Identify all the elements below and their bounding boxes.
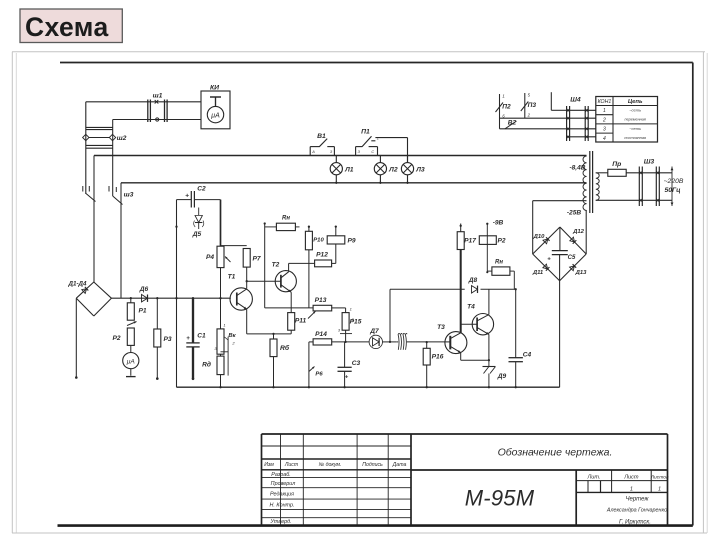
- svg-text:Р12: Р12: [316, 252, 328, 259]
- svg-text:+: +: [345, 375, 349, 381]
- svg-text:Александра Гончаренко: Александра Гончаренко: [606, 508, 667, 514]
- svg-text:Т1: Т1: [228, 274, 236, 281]
- svg-text:Р13: Р13: [315, 297, 327, 304]
- svg-text:1: 1: [658, 486, 661, 492]
- svg-text:Р6: Р6: [315, 372, 323, 378]
- svg-text:С2: С2: [197, 186, 206, 193]
- svg-text:Дата: Дата: [392, 462, 407, 468]
- svg-text:А: А: [311, 150, 315, 154]
- svg-text:Т4: Т4: [467, 304, 475, 311]
- svg-text:В2: В2: [508, 120, 517, 127]
- svg-text:Схема: Схема: [25, 12, 109, 42]
- svg-text:Р9: Р9: [347, 238, 355, 245]
- svg-text:ш2: ш2: [117, 135, 127, 142]
- svg-text:+: +: [185, 193, 189, 200]
- svg-text:1: 1: [223, 323, 225, 328]
- svg-text:3: 3: [603, 127, 606, 133]
- svg-text:-25В: -25В: [567, 210, 582, 217]
- svg-text:П1: П1: [361, 129, 370, 136]
- svg-text:ш1: ш1: [153, 92, 163, 99]
- svg-text:Г. Иркутск.: Г. Иркутск.: [619, 520, 651, 526]
- svg-text:Изм: Изм: [264, 462, 274, 468]
- svg-text:Р4: Р4: [206, 254, 214, 261]
- svg-text:4: 4: [603, 136, 606, 142]
- svg-text:С: С: [371, 150, 374, 154]
- svg-text:Редакция: Редакция: [270, 491, 294, 497]
- svg-text:Пр: Пр: [612, 161, 621, 168]
- svg-text:П2: П2: [502, 104, 511, 111]
- svg-text:~220В: ~220В: [664, 178, 684, 185]
- svg-text:+: +: [186, 336, 190, 342]
- svg-text:Д5: Д5: [192, 231, 202, 238]
- svg-text:-9В: -9В: [493, 220, 504, 227]
- svg-text:Утверд.: Утверд.: [269, 519, 291, 525]
- svg-text:Л1: Л1: [344, 166, 354, 173]
- svg-text:μА: μА: [126, 358, 136, 365]
- svg-text:Лист: Лист: [284, 462, 299, 468]
- svg-text:1: 1: [377, 136, 379, 140]
- svg-text:Р10: Р10: [313, 238, 324, 244]
- svg-text:Проверил: Проверил: [271, 481, 296, 487]
- svg-text:КОН1: КОН1: [598, 99, 612, 105]
- svg-text:~сеть: ~сеть: [629, 126, 641, 131]
- svg-text:~сеть: ~сеть: [629, 108, 641, 113]
- svg-text:ш3: ш3: [124, 192, 134, 199]
- svg-text:1: 1: [350, 307, 352, 312]
- svg-text:Вк: Вк: [228, 333, 236, 339]
- svg-text:Т3: Т3: [437, 324, 445, 331]
- svg-text:Р7: Р7: [252, 256, 260, 263]
- svg-text:1: 1: [603, 108, 606, 114]
- svg-text:Rд: Rд: [202, 361, 211, 369]
- svg-text:Д10: Д10: [533, 234, 546, 240]
- svg-text:Р17: Р17: [464, 238, 476, 245]
- svg-text:Р3: Р3: [163, 336, 171, 343]
- svg-text:Д11: Д11: [532, 270, 543, 276]
- svg-text:Чертеж: Чертеж: [625, 497, 649, 503]
- svg-text:М-95М: М-95М: [465, 486, 535, 511]
- svg-text:С5: С5: [568, 255, 576, 261]
- svg-text:Д1-Д4: Д1-Д4: [68, 281, 87, 288]
- svg-text:С3: С3: [352, 360, 361, 367]
- svg-text:Л3: Л3: [415, 166, 425, 173]
- svg-text:Д12: Д12: [572, 229, 585, 235]
- svg-text:Лит.: Лит.: [586, 475, 600, 481]
- svg-text:Цепь: Цепь: [628, 99, 643, 105]
- svg-text:Листов: Листов: [650, 475, 669, 481]
- svg-text:2: 2: [602, 117, 606, 123]
- svg-text:Rн: Rн: [282, 216, 290, 222]
- svg-text:Ш3: Ш3: [644, 159, 655, 166]
- svg-text:П3: П3: [528, 102, 537, 109]
- svg-text:Обозначение чертежа.: Обозначение чертежа.: [498, 447, 613, 459]
- svg-text:Rн: Rн: [495, 260, 503, 266]
- svg-text:Rб: Rб: [280, 344, 290, 352]
- svg-text:С4: С4: [523, 352, 532, 359]
- svg-text:Р11: Р11: [295, 318, 307, 325]
- svg-text:Д9: Д9: [497, 373, 507, 380]
- svg-text:№ докум.: № докум.: [319, 462, 342, 468]
- svg-text:μА: μА: [210, 112, 220, 119]
- svg-text:Лист: Лист: [623, 475, 639, 481]
- svg-text:Т2: Т2: [272, 262, 280, 269]
- svg-text:Р14: Р14: [315, 331, 327, 338]
- svg-text:КИ: КИ: [210, 85, 219, 92]
- svg-text:Д6: Д6: [139, 286, 149, 293]
- svg-text:Подпись: Подпись: [362, 462, 383, 468]
- svg-text:Н. Контр.: Н. Контр.: [270, 502, 295, 508]
- svg-text:Д13: Д13: [575, 270, 588, 276]
- svg-text:переменная: переменная: [624, 118, 645, 122]
- svg-text:постоянная: постоянная: [624, 136, 646, 140]
- svg-text:Д7: Д7: [369, 328, 379, 335]
- svg-text:Разраб.: Разраб.: [271, 472, 291, 478]
- svg-text:Р2: Р2: [112, 335, 120, 342]
- svg-text:Л2: Л2: [388, 166, 398, 173]
- svg-text:Д8: Д8: [468, 277, 478, 284]
- svg-text:В1: В1: [317, 133, 326, 140]
- svg-text:-8,4В: -8,4В: [569, 165, 585, 172]
- svg-text:1: 1: [502, 94, 504, 99]
- svg-text:Ш4: Ш4: [570, 97, 581, 104]
- svg-text:1: 1: [630, 486, 633, 492]
- svg-text:50Гц: 50Гц: [664, 187, 681, 194]
- svg-text:Р16: Р16: [432, 354, 444, 361]
- svg-text:С1: С1: [197, 333, 206, 340]
- svg-text:Р1: Р1: [138, 308, 146, 315]
- svg-text:Р2: Р2: [497, 238, 505, 245]
- svg-text:+: +: [547, 257, 551, 263]
